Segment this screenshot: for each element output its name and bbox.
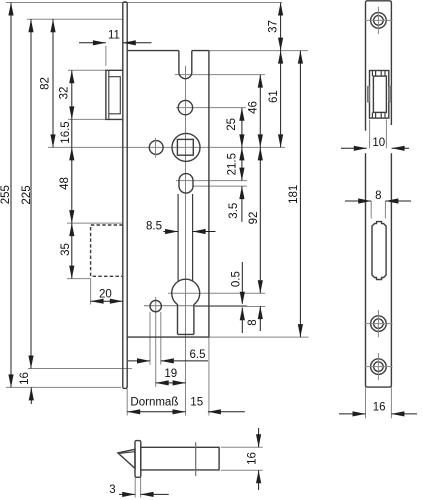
svg-text:3: 3 (109, 484, 115, 496)
cylinder centreline horizontal (168, 292, 265, 294)
svg-text:16: 16 (373, 401, 386, 413)
svg-text:32: 32 (58, 87, 70, 100)
extension oval centre y=180.6 (176, 180, 247, 182)
main centreline vertical x=185.5 (185, 66, 187, 416)
follower square (handle spindle hole) (177, 139, 193, 155)
svg-text:3.5: 3.5 (228, 203, 240, 219)
dim 10 line and arrows (341, 147, 367, 149)
dim 8 bolt slot width (370, 201, 372, 219)
dim 16 left (outside arrows) (30, 387, 32, 404)
dim 16 strike plate width (365, 387, 367, 418)
dim 82 line (52, 19, 54, 147)
dim 16.5 line (71, 119, 73, 147)
dim 10 pocket width extension lines (369, 120, 371, 149)
svg-text:16.5: 16.5 (60, 121, 72, 143)
dim 21.5 line (241, 147, 243, 180)
svg-text:11: 11 (108, 29, 120, 41)
extension lines 6.5 hole verticals (149, 312, 151, 365)
extension case right edge down (208, 337, 210, 415)
dim 92 line (259, 147, 261, 293)
latch pocket side springs (368, 87, 370, 102)
dim 255 line (10, 3, 12, 388)
dim 8.5 cylinder slot width (163, 231, 178, 233)
crosshair vertical for small circle (155, 138, 157, 158)
extension line y=387.4 (255 bottom) (6, 386, 121, 388)
svg-text:61: 61 (268, 90, 280, 103)
cylinder slot left line (177, 194, 179, 281)
latch bevel lines (109, 70, 121, 119)
dim 3 faceplate thickness (134, 477, 136, 497)
svg-text:19: 19 (164, 368, 177, 380)
section case front line (195, 442, 197, 476)
svg-text:225: 225 (21, 185, 33, 204)
dim 0.5 line (outside arrows) (241, 262, 243, 304)
section faceplate edge-on (135, 441, 141, 478)
section latch bevel (118, 449, 135, 468)
extension oval bottom y=186.1 (193, 185, 247, 187)
dim 61 line (280, 51, 282, 148)
svg-text:6.5: 6.5 (190, 349, 206, 361)
svg-text:82: 82 (39, 77, 51, 90)
svg-text:8.5: 8.5 (146, 220, 162, 232)
spindle guide small circle left of follower (149, 141, 163, 155)
strike screw hole bottom outer (371, 359, 387, 375)
fixing hole small circle (150, 300, 161, 311)
extension line latch top left (68, 69, 106, 71)
svg-text:8: 8 (247, 319, 259, 325)
svg-text:8: 8 (375, 190, 381, 202)
strike screw hole bottom inner (374, 362, 384, 372)
svg-text:21.5: 21.5 (227, 153, 239, 175)
extension case top right (209, 50, 308, 52)
strike screw hole middle inner (374, 319, 384, 329)
crosshair top screw hole (365, 19, 393, 21)
extension line for 20 dim vertical (90, 279, 92, 305)
latch pocket tabs top (371, 71, 373, 77)
dim 46 line (259, 75, 261, 148)
extension screw hole centre y=107.6 (176, 107, 246, 109)
cylinder hole circle (keyhole arc, open at stem) (172, 279, 200, 304)
spring notch U-cutout at case top (179, 51, 192, 79)
svg-text:20: 20 (99, 288, 112, 300)
strike plate body upper part (edges break at the 10-dim) (366, 1, 392, 131)
strike screw hole middle outer (371, 316, 387, 332)
cylinder stem sides (177, 304, 179, 334)
dim 16 bottom view (221, 446, 263, 448)
svg-text:46: 46 (248, 101, 260, 114)
svg-text:10: 10 (372, 137, 385, 149)
extension line latch bottom left (68, 118, 106, 120)
aux line y=306.5 (195, 306, 265, 308)
svg-text:48: 48 (59, 177, 71, 190)
dim 6.5 hole diameter (128, 360, 150, 362)
svg-text:16: 16 (247, 452, 259, 465)
dim 32 line (71, 70, 73, 119)
dim 37 line (280, 3, 282, 51)
svg-text:37: 37 (268, 20, 280, 33)
svg-text:35: 35 (60, 243, 72, 256)
crosshair bottom screw hole (365, 366, 393, 368)
extension line for 11 dim vertical (105, 46, 107, 66)
extension faceplate right edge down (126, 389, 128, 416)
extension line top (faceplate top, refs 255 and 37) (6, 2, 282, 4)
extension line deadbolt bottom (67, 278, 91, 280)
dim Dornmass backset (127, 411, 185, 413)
cylinder stem bottom (178, 333, 194, 335)
extension line y=368.5 (225 bottom) (28, 368, 132, 370)
latch pocket outer (370, 71, 389, 119)
follower centreline horizontal (48, 146, 285, 148)
deadbolt slot in strike plate (372, 222, 386, 280)
extension line deadbolt top (67, 222, 122, 224)
dim 8 right (outside arrows) (259, 306, 261, 331)
latch pocket inner box (373, 76, 386, 112)
oval screw slot hole (179, 174, 193, 194)
follower circle (172, 133, 200, 161)
hole centreline vertical x=155.7 (155, 297, 157, 387)
dim 25 line (241, 108, 243, 148)
dim 20 deadbolt throw (91, 300, 123, 302)
strike screw hole top outer (371, 13, 387, 29)
faceplate (Stulp) strip (123, 2, 127, 388)
latch bolt (Falle) outline (106, 70, 123, 119)
strike screw hole top inner (374, 16, 384, 26)
crosshair middle screw hole (365, 323, 393, 325)
lock case bottom edge (127, 336, 209, 338)
dim 3.5 line (outside arrows) (241, 186, 243, 222)
svg-text:15: 15 (190, 396, 203, 408)
svg-text:0.5: 0.5 (230, 271, 242, 287)
latch guide screw hole (178, 100, 192, 114)
latch pocket tabs bottom (371, 112, 373, 118)
dim 15 follower to case edge (208, 411, 245, 413)
dim 35 line (71, 223, 73, 279)
extension case bottom right (209, 336, 309, 338)
extension notch centre y=74.6 (175, 74, 265, 76)
dim 48 line (71, 147, 73, 223)
svg-text:255: 255 (0, 185, 12, 204)
dim 181 line (299, 51, 301, 338)
svg-text:16: 16 (19, 372, 31, 385)
extension line y=19.3 (refs 225 and 82) (27, 18, 123, 20)
cylinder slot right line (192, 194, 194, 281)
lock case top edge (127, 50, 179, 52)
aux hole centreline horizontal y=305.7 (144, 305, 247, 307)
dim 19 hole to cylinder centre (156, 382, 186, 384)
svg-text:Dornmaß: Dornmaß (130, 396, 178, 408)
svg-text:25: 25 (226, 118, 238, 131)
svg-text:92: 92 (248, 212, 260, 225)
deadbolt thrown position (dashed, hidden) (91, 225, 123, 276)
strike plate body lower part (366, 153, 392, 387)
dim 225 line (30, 19, 32, 368)
lock case right edge (208, 51, 210, 338)
svg-text:181: 181 (288, 185, 300, 204)
section latch bolt body (141, 447, 219, 470)
dim 11 latch protrusion (79, 42, 106, 44)
